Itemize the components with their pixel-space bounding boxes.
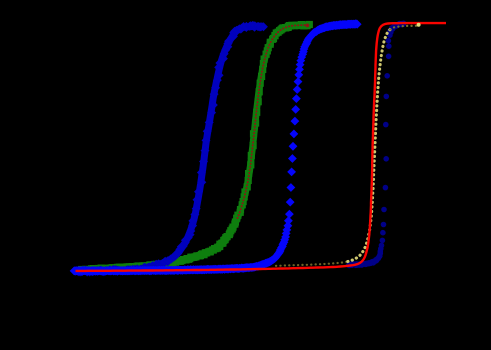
marker: bright khaki end dot [417, 23, 421, 27]
series: red solid sigmoid line (curve 4) [76, 23, 447, 271]
series: dark-red dotted line on green curve [238, 25, 311, 218]
series: green squares sigmoid (curve 2) [80, 25, 310, 270]
series: dark blue diamond sigmoid (curve 1) [76, 26, 264, 271]
series: bright blue diamond sigmoid (curve 3) [70, 19, 362, 275]
series: navy circle sigmoid (curve 6) [346, 21, 406, 269]
series: khaki dotted sigmoid (curve 5) [276, 261, 349, 266]
